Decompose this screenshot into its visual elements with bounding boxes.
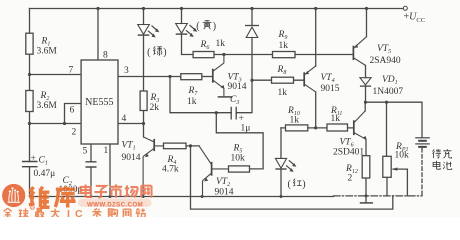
svg-text:): ) [163, 47, 166, 58]
wire R12 bottom to ground [365, 178, 367, 202]
node junction R4-VT2-collector [189, 144, 192, 147]
svg-text:1: 1 [104, 146, 109, 156]
watermark bottom row [3, 208, 145, 220]
wire LED red chain [280, 128, 282, 197]
svg-text:10k: 10k [231, 154, 246, 164]
svg-text:WWW.DZSC.COM: WWW.DZSC.COM [87, 202, 143, 209]
svg-text:): ) [213, 21, 216, 32]
svg-text:+: + [239, 114, 244, 124]
wire LED yellow chain [182, 9, 194, 55]
node junction VT2-emitter-ground [201, 195, 204, 198]
watermark dzsc band [78, 199, 152, 209]
svg-text:10k: 10k [395, 151, 410, 161]
wire pin1 [109, 144, 111, 197]
wire pin4 [118, 123, 144, 125]
svg-text:6: 6 [70, 106, 75, 116]
svg-text:7: 7 [69, 66, 74, 76]
node junction LED-green-rail [142, 7, 145, 10]
svg-text:9014: 9014 [228, 82, 247, 92]
svg-text:2SA940: 2SA940 [370, 56, 401, 66]
svg-text:5: 5 [83, 147, 88, 157]
node junction C2-ground [90, 195, 93, 198]
node junction R1-R2-pin7 [28, 73, 31, 76]
svg-text:1μ: 1μ [241, 124, 251, 134]
node junction pin1-ground [109, 195, 112, 198]
watermark weiku [29, 186, 76, 207]
node junction pin8-rail [96, 7, 99, 10]
resistor R5 [229, 166, 250, 172]
node junction C3-R5 [215, 111, 218, 114]
svg-text:0.47μ: 0.47μ [34, 169, 56, 179]
svg-text:4: 4 [122, 114, 127, 124]
wire ground rail solid [30, 196, 334, 198]
transistor VT4 [304, 66, 316, 92]
wire VT5 emitter to rail [366, 9, 368, 37]
resistor R3 [140, 91, 147, 111]
node junction R12-ground [365, 194, 368, 197]
node junction LED-yellow-rail [180, 7, 183, 10]
svg-text:2: 2 [348, 174, 353, 184]
wire pin5 and capacitor C2 leads [90, 144, 92, 197]
wire VD1 cathode to battery node [366, 86, 423, 137]
wire pin3 [118, 76, 181, 78]
wire pin6 stub [65, 104, 82, 124]
resistor R1 [26, 33, 33, 54]
wire potentiometer top [386, 102, 388, 156]
svg-text:1k: 1k [279, 41, 289, 51]
label red LED [288, 179, 306, 190]
svg-text:1k: 1k [187, 97, 197, 107]
LED green [138, 25, 160, 38]
svg-text:8: 8 [103, 51, 108, 61]
wire potentiometer bottom [386, 177, 388, 196]
wire LED green chain [143, 9, 145, 138]
transistor VT2 [199, 146, 228, 197]
wire left vertical chain [29, 9, 31, 197]
resistor R8 [272, 77, 294, 83]
ground [360, 202, 373, 204]
IC U1 NE555 [81, 60, 118, 144]
svg-text:1k: 1k [290, 116, 300, 126]
potentiometer RP1 [383, 156, 398, 177]
capacitor C2 [86, 162, 97, 167]
node junction diode-rail [250, 7, 253, 10]
label yellow LED [196, 20, 216, 32]
svg-text:3.6M: 3.6M [37, 101, 58, 111]
wire pin8 [97, 9, 99, 61]
wire R6 to R9 net [214, 54, 273, 56]
wire R5 right snake to pin3 net [216, 113, 263, 169]
wire VT5 collector to VD1 [365, 65, 367, 77]
wire VT4 collector down [315, 92, 317, 128]
node junction diode-R8-C3 [250, 79, 253, 82]
node junction VT5-rail [365, 7, 368, 10]
resistor R7 [181, 74, 202, 80]
wire potentiometer wiper [394, 169, 407, 196]
wire C3 left net [170, 77, 231, 113]
label battery daichong dianchi [433, 149, 452, 169]
wire R10 R11 line [281, 127, 354, 129]
wire pin2 [30, 123, 82, 125]
node junction VD1-output [364, 101, 367, 104]
transistor VT1 [143, 137, 163, 197]
svg-text:2k: 2k [150, 103, 160, 113]
resistor R4 [164, 143, 187, 149]
battery B1 [415, 138, 430, 147]
capacitor C1 [22, 162, 38, 167]
svg-text:4.7k: 4.7k [162, 165, 179, 175]
watermark logo [2, 184, 34, 210]
node junction pin3-C3 [168, 75, 171, 78]
node junction pot-top [385, 101, 388, 104]
transistor VT5 [353, 37, 366, 66]
svg-text:9014: 9014 [215, 188, 234, 198]
wire C3 right riser [236, 80, 252, 113]
node junction VT4-rail [314, 7, 317, 10]
label green LED [147, 46, 167, 58]
diode VD1 [360, 78, 371, 86]
wire battery bottom dashed [421, 149, 423, 196]
resistor R12 [362, 156, 370, 178]
transistor VT3 [213, 55, 233, 97]
wire ground rail dash-dot [334, 195, 423, 197]
svg-text:1k: 1k [331, 114, 341, 124]
svg-text:2SD401: 2SD401 [333, 148, 364, 158]
wire VT4 emitter to rail [315, 9, 317, 67]
svg-text:9014: 9014 [122, 153, 141, 163]
capacitor C3 [231, 107, 236, 120]
node junction VT1-emitter-ground [142, 195, 145, 198]
resistor R9 [273, 52, 296, 58]
node junction VT3-collector [222, 53, 225, 56]
wire VT6 emitter to R12 [365, 139, 367, 155]
diode VD2 top clamp [245, 26, 259, 38]
wire pin7 [30, 74, 82, 76]
node junction pin6-pin2 [63, 122, 66, 125]
svg-text:NE555: NE555 [85, 97, 113, 108]
svg-text:1N4007: 1N4007 [373, 87, 404, 97]
wire R9 to VT5 base [295, 54, 353, 56]
svg-text:9015: 9015 [321, 84, 340, 94]
LED red [275, 158, 296, 172]
svg-text:3.6M: 3.6M [37, 47, 58, 57]
transistor VT6 [354, 111, 367, 140]
wire lower detour [191, 196, 393, 209]
wire R4 to node and down [186, 146, 199, 197]
wire VT6 collector up [364, 102, 366, 111]
resistor R6 [193, 52, 214, 58]
node junction pin4-R3 [142, 122, 145, 125]
resistor R2 [26, 91, 33, 112]
watermark dianzishichangwang [81, 184, 152, 197]
svg-text:C: C [75, 208, 83, 217]
svg-text:1k: 1k [216, 39, 226, 49]
svg-text:2: 2 [72, 128, 77, 138]
svg-text:): ) [302, 179, 305, 190]
wire R8 leads [252, 79, 304, 81]
node junction LED-red-ground [280, 195, 283, 198]
resistor R10 [286, 125, 308, 131]
node +Ucc terminal [403, 6, 407, 10]
wire R7 to VT3 base [202, 76, 213, 78]
svg-text:3: 3 [124, 66, 129, 76]
node junction R2-C1-pin2 [28, 122, 31, 125]
wire top +Ucc rail [30, 8, 404, 10]
svg-text:I: I [67, 208, 70, 217]
node junction VT4-collector-R10-R11 [314, 126, 317, 129]
LED yellow [176, 24, 198, 37]
resistor R11 [327, 124, 348, 131]
wire diode chain [251, 9, 253, 81]
svg-text:+: + [31, 154, 36, 164]
svg-text:1k: 1k [278, 88, 288, 98]
